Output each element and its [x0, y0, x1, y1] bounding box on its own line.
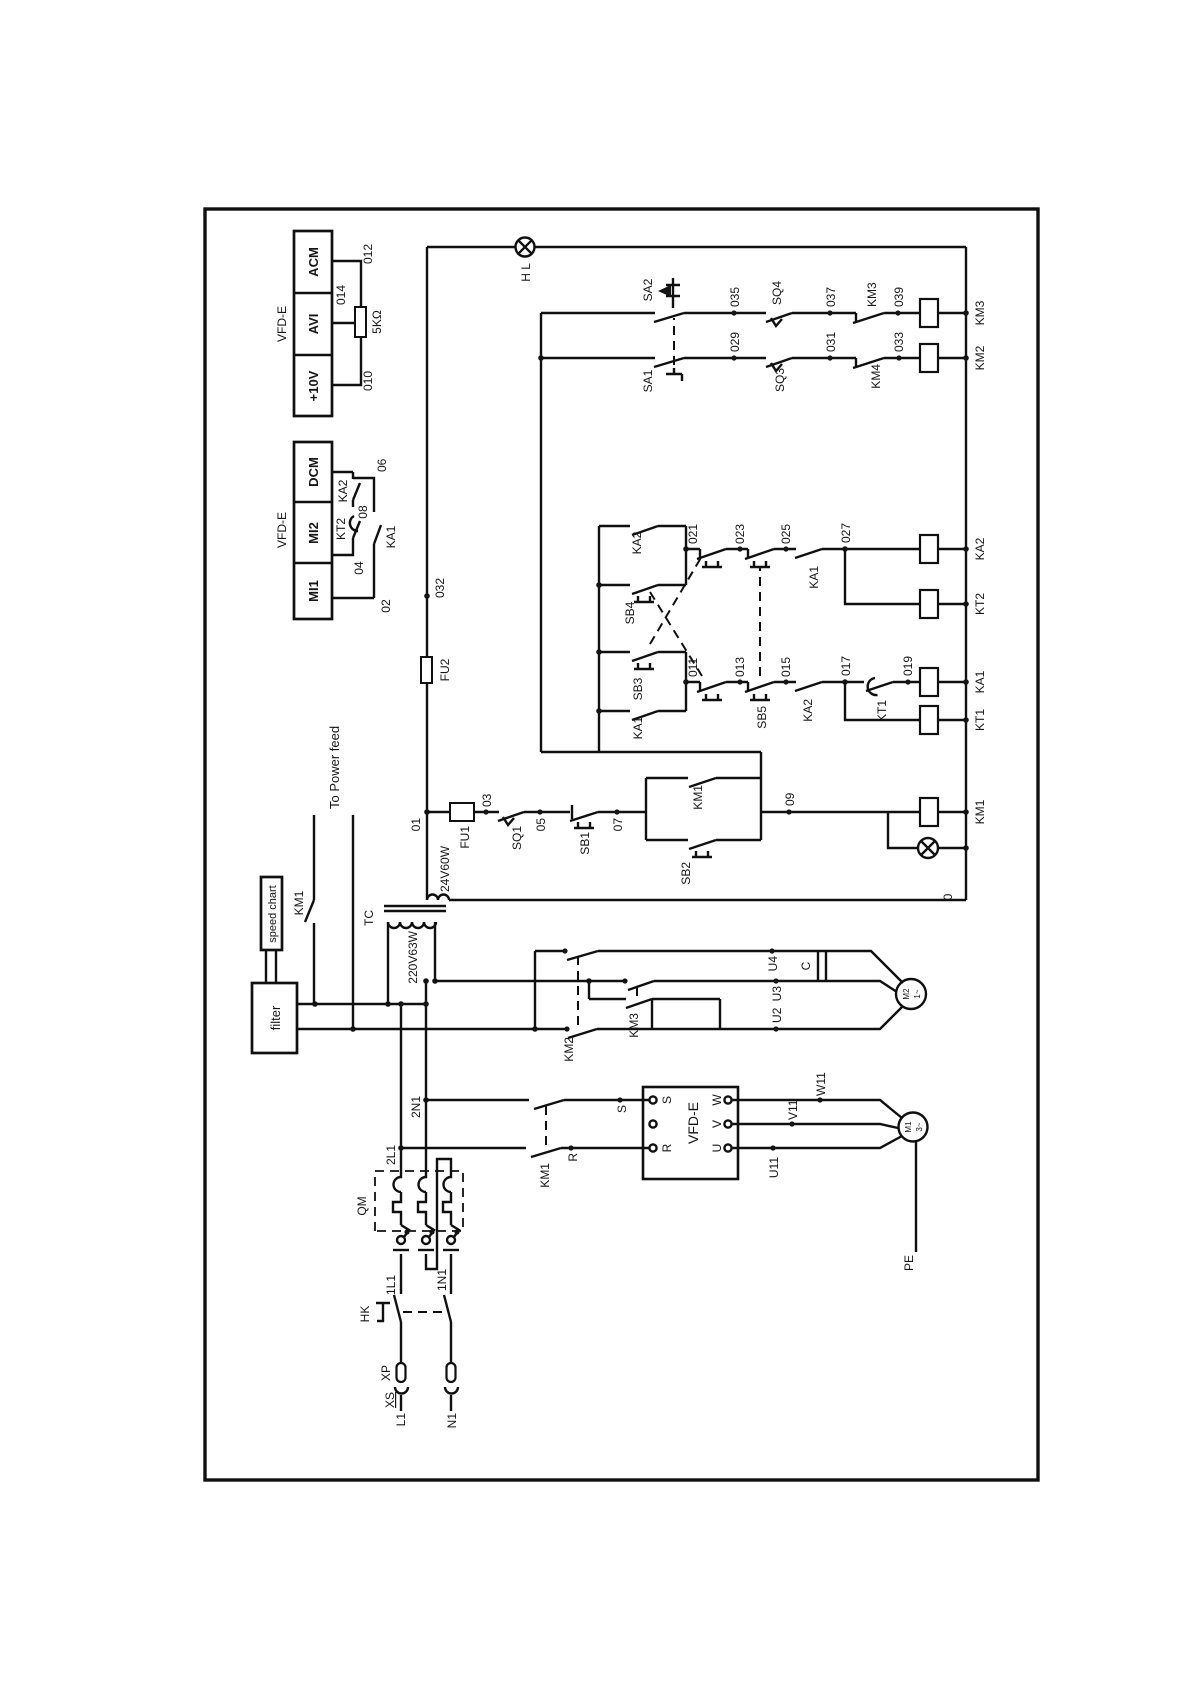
rung KA1	[686, 681, 920, 683]
svg-text:VFD-E: VFD-E	[275, 306, 289, 342]
terminal W	[724, 1096, 731, 1103]
svg-text:KM4: KM4	[869, 364, 883, 389]
contact KM3 (pole A)	[628, 981, 654, 990]
svg-text:XP: XP	[379, 1365, 393, 1381]
coil KA1	[920, 668, 938, 696]
svg-text:M1: M1	[904, 1121, 913, 1133]
svg-text:SQ1: SQ1	[510, 826, 524, 850]
linkage SB4 cross	[650, 592, 702, 676]
terminal U	[724, 1144, 731, 1151]
terminal S	[649, 1096, 656, 1103]
svg-text:2N1: 2N1	[409, 1096, 423, 1118]
svg-text:KM2: KM2	[973, 345, 987, 370]
border frame	[205, 209, 1038, 1480]
svg-text:06: 06	[375, 458, 389, 472]
coil KA2	[920, 535, 938, 563]
svg-text:To Power feed: To Power feed	[327, 726, 342, 809]
node 015	[783, 679, 788, 684]
svg-text:VFD-E: VFD-E	[275, 512, 289, 548]
svg-text:N1: N1	[445, 1413, 459, 1429]
wire KM3 pole B feed	[589, 981, 626, 999]
svg-text:S: S	[660, 1096, 674, 1104]
svg-text:KM2: KM2	[562, 1037, 576, 1062]
wire TC secondary to 0 rail	[449, 899, 966, 901]
svg-text:012: 012	[361, 244, 375, 264]
node 029	[731, 355, 736, 360]
button SB1 (NC)	[571, 805, 573, 819]
terminal V	[724, 1120, 731, 1127]
QM pole3 moving contact	[447, 1236, 455, 1244]
svg-text:SB1: SB1	[578, 832, 592, 855]
wire 010	[332, 337, 361, 385]
svg-text:SQ4: SQ4	[770, 281, 784, 305]
wire HK to QM pole3	[450, 1254, 452, 1294]
terminal mid	[649, 1120, 656, 1127]
svg-text:AVI: AVI	[306, 314, 321, 335]
wire V11	[732, 1124, 898, 1128]
wire U2 drop	[720, 1006, 903, 1029]
svg-text:U11: U11	[767, 1157, 781, 1178]
KA1 latch block branch (SB3 start)	[599, 651, 686, 653]
connector XP (plug, N pole)	[447, 1363, 456, 1382]
rung KM3	[541, 312, 920, 314]
svg-text:TC: TC	[362, 910, 376, 926]
wire U11	[732, 1136, 902, 1148]
wire U4 branch	[535, 951, 903, 983]
filter box	[252, 983, 297, 1053]
contact KA2	[353, 483, 360, 500]
svg-text:U: U	[710, 1144, 724, 1153]
connector XS (socket, L pole)	[395, 1387, 408, 1394]
svg-text:R: R	[660, 1143, 674, 1152]
svg-text:24V60W: 24V60W	[438, 845, 452, 892]
QM pole3 fixed bar	[443, 1249, 459, 1251]
capacitor C	[818, 952, 826, 980]
KA2 block bottom	[685, 526, 687, 585]
KA1 latch block branch (KA1 self-hold)	[599, 710, 686, 712]
KA2 latch block branch (KA2 self-hold)	[599, 525, 686, 527]
svg-text:KM3: KM3	[973, 300, 987, 325]
svg-text:KT1: KT1	[875, 700, 889, 722]
wire 06 / contact KA1	[353, 478, 374, 598]
switch SQ3	[766, 358, 792, 367]
fuse FU2	[421, 657, 432, 683]
lamp (run indicator) branch	[888, 812, 966, 848]
speed chart box	[261, 877, 282, 950]
contact KM2 (pole A)	[567, 951, 598, 960]
svg-text:KT2: KT2	[334, 518, 348, 540]
svg-text:FU1: FU1	[458, 826, 472, 849]
motor M2	[896, 979, 926, 1009]
wire plug to HK	[400, 1322, 402, 1363]
svg-text:M2: M2	[902, 988, 911, 1000]
rung KA2	[686, 548, 920, 550]
ladder feed riser	[541, 751, 761, 753]
svg-text:KA1: KA1	[631, 716, 645, 739]
svg-text:KA2: KA2	[973, 537, 987, 560]
wire 05	[524, 811, 570, 813]
contact KA2 (NC interlock)	[795, 682, 822, 691]
svg-text:021: 021	[686, 524, 700, 544]
wire 09	[646, 811, 920, 813]
svg-text:019: 019	[901, 656, 915, 676]
KM1 block bottom / ladder feed branch	[760, 752, 762, 840]
svg-text:SB2: SB2	[679, 862, 693, 885]
motor M1	[899, 1113, 928, 1142]
svg-text:FU2: FU2	[438, 658, 452, 681]
node 031	[827, 355, 832, 360]
coil KM2	[920, 344, 938, 372]
QM pole1 fixed bar	[393, 1249, 409, 1251]
svg-text:013: 013	[733, 657, 747, 677]
wire M2 feed top	[534, 951, 536, 1029]
svg-text:3~: 3~	[915, 1122, 924, 1131]
svg-text:01: 01	[409, 818, 423, 832]
svg-text:speed chart: speed chart	[267, 885, 279, 942]
rung KM2	[541, 357, 920, 359]
wire 03	[474, 811, 499, 813]
svg-text:017: 017	[839, 656, 853, 676]
wire N1 to plug	[450, 1395, 452, 1411]
wire U3	[435, 981, 897, 992]
svg-text:0: 0	[941, 893, 955, 900]
svg-text:U2: U2	[770, 1007, 784, 1023]
svg-text:1~: 1~	[913, 989, 922, 998]
svg-text:5KΩ: 5KΩ	[370, 310, 384, 334]
connector XP (plug, L pole)	[397, 1363, 406, 1382]
svg-text:SQ3: SQ3	[773, 368, 787, 392]
wire filter column B	[297, 1003, 426, 1005]
linkage SA1-SA2	[673, 318, 675, 365]
KA1 block bottom	[685, 652, 687, 711]
svg-text:KM3: KM3	[627, 1013, 641, 1038]
contact KM3 (NC)	[855, 313, 857, 322]
svg-text:R: R	[566, 1153, 580, 1162]
wire 012	[332, 261, 361, 307]
contact KT2 (delayed)	[353, 521, 360, 538]
contact SB3 (NC, linked)	[699, 549, 701, 558]
wire filter-speedchart link	[266, 950, 276, 983]
node 023	[737, 546, 742, 551]
connector XS (socket, N pole)	[445, 1387, 458, 1394]
wire W11	[732, 1100, 902, 1118]
svg-text:U4: U4	[766, 956, 780, 972]
contact KM4 (NC)	[855, 358, 857, 367]
svg-text:XS: XS	[383, 1392, 397, 1408]
svg-text:035: 035	[728, 287, 742, 307]
contact KA1 (NO)	[795, 549, 822, 558]
contact KM1 (power feed)	[305, 900, 314, 922]
feed line lower (latch blocks)	[598, 526, 600, 752]
switch SA2	[654, 313, 684, 322]
svg-text:029: 029	[728, 332, 742, 352]
resistor 5K (speed pot)	[355, 307, 366, 337]
rail 0	[965, 247, 967, 900]
svg-text:039: 039	[892, 287, 906, 307]
wire 24V control feed	[426, 247, 428, 900]
inverter VFD-E (power section)	[643, 1087, 738, 1179]
svg-text:1L1: 1L1	[384, 1275, 398, 1295]
linkage SB5	[759, 566, 761, 676]
svg-text:032: 032	[433, 578, 447, 598]
branch KT1 coil	[845, 682, 920, 720]
svg-text:filter: filter	[268, 1005, 283, 1030]
contact KM3 (pole B)	[626, 999, 652, 1008]
svg-text:2L1: 2L1	[384, 1145, 398, 1165]
node 025	[783, 546, 788, 551]
svg-text:04: 04	[352, 561, 366, 575]
svg-text:KA2: KA2	[630, 531, 644, 554]
svg-text:DCM: DCM	[306, 457, 321, 487]
svg-text:C: C	[799, 961, 813, 970]
svg-text:+10V: +10V	[306, 370, 321, 401]
svg-text:MI2: MI2	[306, 522, 321, 544]
svg-text:015: 015	[779, 657, 793, 677]
svg-text:PE: PE	[902, 1255, 916, 1271]
lamp HL	[427, 246, 966, 248]
svg-text:V11: V11	[786, 1099, 800, 1120]
node 013	[737, 679, 742, 684]
node 019	[905, 679, 910, 684]
wire 02 (MI1)	[332, 597, 374, 599]
contact KT1 (delayed)	[866, 682, 893, 691]
switch SQ4	[766, 313, 792, 322]
svg-text:H L: H L	[519, 263, 533, 282]
svg-text:W: W	[710, 1094, 724, 1106]
junction 2L1/R	[398, 1145, 404, 1151]
TC core	[384, 906, 446, 911]
svg-text:220V63W: 220V63W	[406, 930, 420, 983]
svg-text:KT1: KT1	[973, 709, 987, 731]
KA2 latch block branch (SB4 start)	[599, 584, 686, 586]
svg-text:KM1: KM1	[292, 890, 306, 915]
svg-text:V: V	[710, 1120, 724, 1128]
QM pole2 fixed bar	[418, 1249, 434, 1251]
svg-text:031: 031	[824, 332, 838, 352]
svg-text:1N1: 1N1	[435, 1269, 449, 1291]
wire 014	[332, 322, 355, 324]
linkage KM3	[636, 984, 638, 996]
TC primary winding	[388, 922, 436, 928]
svg-text:08: 08	[356, 505, 370, 519]
svg-text:ACM: ACM	[306, 247, 321, 277]
svg-text:05: 05	[534, 818, 548, 832]
wire filter column A	[297, 1028, 720, 1030]
branch KT2 coil	[845, 549, 920, 604]
wire QM pole3 output jog to pole2 input	[426, 1159, 451, 1269]
contact KM2 (pole B)	[568, 1029, 597, 1038]
svg-text:KT2: KT2	[973, 593, 987, 615]
svg-text:U3: U3	[770, 986, 784, 1002]
svg-text:KM1: KM1	[973, 799, 987, 824]
svg-text:02: 02	[379, 599, 393, 613]
node 035	[731, 310, 736, 315]
svg-text:S: S	[615, 1105, 629, 1113]
svg-text:03: 03	[480, 793, 494, 807]
coil KM3	[920, 299, 938, 327]
wire HK to QM pole1	[400, 1254, 402, 1294]
fuse FU1	[450, 803, 474, 821]
TC primary leads	[388, 922, 435, 1004]
wire plug to HK	[450, 1322, 452, 1363]
wire loop to U2	[652, 999, 720, 1029]
wire 04 (MI2)	[332, 538, 353, 555]
contact SB5 (NC, linked)	[747, 549, 749, 558]
svg-text:VFD-E: VFD-E	[685, 1102, 701, 1144]
svg-text:SA2: SA2	[641, 278, 655, 301]
svg-text:037: 037	[824, 287, 838, 307]
linkage KM2	[577, 955, 579, 1025]
svg-text:KM1: KM1	[691, 785, 705, 810]
svg-text:KA2: KA2	[801, 699, 815, 722]
contact KM1 (R pole)	[531, 1148, 561, 1157]
QM pole2 thermal element	[418, 1173, 426, 1225]
TC secondary winding	[427, 895, 449, 901]
svg-text:025: 025	[779, 524, 793, 544]
svg-text:014: 014	[334, 285, 348, 305]
wire 07	[598, 811, 646, 813]
QM pole1 moving contact	[397, 1236, 405, 1244]
wire power feed 1	[313, 815, 315, 1004]
svg-text:HK: HK	[358, 1306, 372, 1323]
svg-text:KA1: KA1	[384, 525, 398, 548]
node 039	[895, 310, 900, 315]
svg-text:033: 033	[892, 332, 906, 352]
svg-text:SB5: SB5	[755, 706, 769, 729]
node 027	[842, 546, 848, 552]
wire R drop	[401, 1147, 649, 1149]
svg-text:SB3: SB3	[631, 677, 645, 700]
QM pole2 moving contact	[422, 1236, 430, 1244]
QM pole3 thermal element	[443, 1173, 451, 1225]
svg-text:KM3: KM3	[865, 282, 879, 307]
svg-text:KA1: KA1	[973, 670, 987, 693]
svg-text:010: 010	[361, 371, 375, 391]
svg-text:07: 07	[611, 818, 625, 832]
button SB2 (NO start)	[646, 839, 761, 841]
svg-text:QM: QM	[355, 1196, 369, 1215]
svg-text:W11: W11	[814, 1072, 828, 1096]
terminal R	[649, 1144, 656, 1151]
node 037	[827, 310, 832, 315]
wire S drop	[426, 1099, 649, 1101]
svg-text:027: 027	[839, 523, 853, 543]
linkage KM1	[545, 1104, 547, 1145]
button SB5 (NC stop)	[747, 682, 749, 691]
switch SQ1	[498, 812, 524, 821]
wire PE	[915, 1141, 917, 1252]
contact KM1 (S pole)	[534, 1100, 564, 1109]
wire power feed 2	[352, 815, 354, 1029]
svg-text:09: 09	[783, 792, 797, 806]
svg-text:MI1: MI1	[306, 580, 321, 602]
svg-text:SA1: SA1	[641, 369, 655, 392]
contact SB4 (NC, linked)	[699, 682, 701, 691]
coil KM1	[920, 798, 938, 826]
svg-text:KA2: KA2	[336, 479, 350, 502]
junction 2N1/S	[423, 1097, 429, 1103]
svg-text:KA1: KA1	[807, 566, 821, 589]
node 033	[896, 355, 901, 360]
svg-text:L1: L1	[394, 1413, 408, 1427]
svg-text:SB4: SB4	[623, 601, 637, 624]
feed line upper (KM2/KM3 rungs)	[540, 313, 542, 752]
wire L1 to plug	[400, 1395, 402, 1411]
svg-text:KM1: KM1	[538, 1163, 552, 1188]
svg-text:023: 023	[733, 524, 747, 544]
contact KM1 self-hold	[646, 777, 761, 779]
wire 08	[352, 500, 354, 507]
KM1 self-hold block top	[645, 778, 647, 840]
linkage SB3 cross	[650, 556, 702, 644]
QM pole1 thermal element	[393, 1173, 401, 1225]
switch SA1	[654, 358, 684, 367]
node 017	[842, 679, 848, 685]
